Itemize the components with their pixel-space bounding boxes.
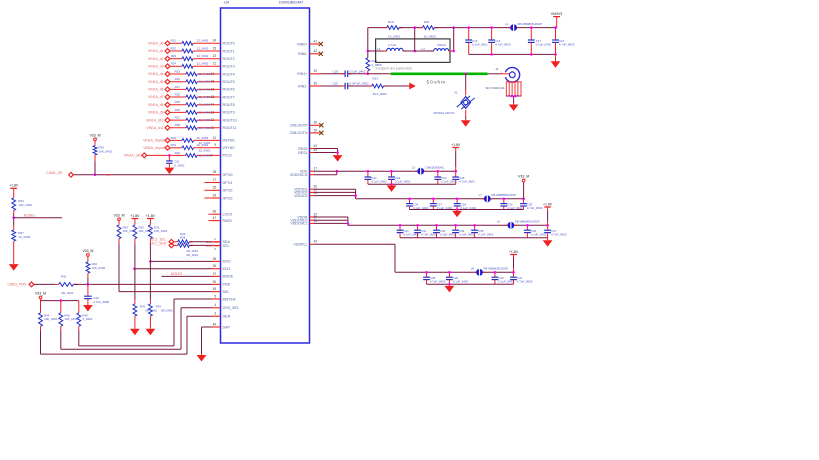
svg-text:35: 35: [213, 257, 217, 261]
svg-text:GPO2: GPO2: [223, 189, 233, 193]
svg-text:V33_M: V33_M: [518, 175, 529, 179]
svg-text:DS90UB914AT: DS90UB914AT: [279, 1, 304, 5]
svg-text:12: 12: [211, 118, 215, 122]
svg-text:37: 37: [213, 272, 217, 276]
svg-text:+1.8V: +1.8V: [543, 202, 553, 206]
svg-text:L8: L8: [471, 267, 475, 271]
svg-text:+1.8V: +1.8V: [9, 184, 19, 188]
svg-text:0.1uF_0402: 0.1uF_0402: [498, 280, 514, 284]
svg-text:VM3V3: VM3V3: [551, 12, 563, 16]
svg-text:22_0402: 22_0402: [199, 153, 211, 157]
svg-text:0.1uF_0402: 0.1uF_0402: [395, 179, 411, 183]
svg-text:5: 5: [214, 294, 216, 298]
svg-text:VIN1A_d1: VIN1A_d1: [148, 49, 164, 53]
svg-text:VIN1A_d7: VIN1A_d7: [148, 95, 164, 99]
svg-text:L4: L4: [421, 47, 425, 51]
svg-text:MODE1: MODE1: [171, 272, 183, 276]
svg-text:RIN0-: RIN0-: [298, 52, 308, 56]
svg-text:PCLK: PCLK: [223, 154, 233, 158]
svg-text:22_0402: 22_0402: [199, 103, 211, 107]
svg-text:30: 30: [213, 280, 217, 284]
svg-text:I2C1_SDA: I2C1_SDA: [150, 242, 166, 246]
svg-text:10K_0402: 10K_0402: [98, 150, 112, 154]
svg-text:IDX1: IDX1: [223, 267, 231, 271]
svg-text:10K_0402: 10K_0402: [18, 203, 32, 207]
svg-text:FB-WB0805U201P: FB-WB0805U201P: [491, 193, 516, 197]
svg-text:49: 49: [213, 322, 217, 326]
svg-text:OSS_SEL: OSS_SEL: [223, 306, 239, 310]
svg-text:VIN1A_d10: VIN1A_d10: [146, 118, 163, 122]
svg-text:27: 27: [213, 178, 217, 182]
svg-text:R24: R24: [171, 62, 177, 66]
svg-text:X_0402: X_0402: [82, 317, 92, 321]
svg-text:CMLOUTP: CMLOUTP: [290, 124, 308, 128]
svg-text:IDX0: IDX0: [223, 260, 231, 264]
svg-text:48: 48: [213, 210, 217, 214]
svg-text:0.1uF_0402: 0.1uF_0402: [350, 70, 366, 74]
svg-text:SCL: SCL: [223, 244, 230, 248]
svg-text:HSYNC: HSYNC: [223, 139, 236, 143]
svg-text:PDB: PDB: [223, 283, 231, 287]
svg-text:45: 45: [213, 287, 217, 291]
svg-text:I2C1_SCL: I2C1_SCL: [206, 244, 220, 248]
svg-text:10K_0402: 10K_0402: [64, 317, 78, 321]
svg-text:16: 16: [211, 87, 215, 91]
svg-text:R31: R31: [171, 143, 177, 147]
svg-text:RIN0+: RIN0+: [297, 42, 307, 46]
svg-text:R23: R23: [373, 77, 379, 81]
svg-text:36: 36: [213, 264, 217, 268]
svg-text:R15: R15: [175, 69, 181, 73]
svg-text:ROUT3: ROUT3: [223, 65, 235, 69]
svg-text:Footprint and partnumber: Footprint and partnumber: [376, 66, 413, 70]
svg-text:R17: R17: [175, 85, 181, 89]
svg-text:R18: R18: [175, 92, 181, 96]
svg-text:CAM1_PDN: CAM1_PDN: [8, 283, 27, 287]
svg-text:SP3021-01ETG: SP3021-01ETG: [433, 111, 455, 115]
svg-text:OEN: OEN: [223, 315, 231, 319]
svg-text:10K_0402: 10K_0402: [44, 317, 58, 321]
svg-text:VDDCML1: VDDCML1: [290, 222, 307, 226]
svg-text:U4: U4: [224, 1, 229, 5]
svg-text:FB-WB0805U201P: FB-WB0805U201P: [484, 267, 509, 271]
svg-text:VIN1A_d11: VIN1A_d11: [146, 126, 163, 130]
svg-text:0.1uF_0402: 0.1uF_0402: [507, 206, 523, 210]
svg-text:BISTEN: BISTEN: [223, 297, 236, 301]
svg-text:ROUT9: ROUT9: [223, 111, 235, 115]
svg-text:23: 23: [213, 46, 217, 50]
svg-text:J1: J1: [495, 67, 499, 71]
svg-text:0R_0402: 0R_0402: [161, 308, 173, 312]
svg-text:0.1uF_0402: 0.1uF_0402: [453, 280, 469, 284]
svg-text:41: 41: [314, 39, 318, 43]
svg-text:+1.8V: +1.8V: [509, 250, 519, 254]
svg-text:ROUT11: ROUT11: [223, 126, 237, 130]
svg-text:RIN1-: RIN1-: [298, 84, 308, 88]
svg-text:DAP: DAP: [223, 325, 231, 329]
svg-text:+1.8V: +1.8V: [130, 214, 140, 218]
svg-text:33: 33: [314, 69, 318, 73]
svg-text:0R_0201: 0R_0201: [186, 253, 198, 257]
svg-text:4.7uF_0603: 4.7uF_0603: [459, 179, 475, 183]
svg-text:+1.8V: +1.8V: [451, 143, 461, 147]
svg-text:49.9_0603: 49.9_0603: [373, 92, 388, 96]
svg-text:VIN1A_hsync0: VIN1A_hsync0: [143, 139, 166, 143]
svg-text:22_0402: 22_0402: [197, 143, 209, 147]
svg-text:4.7uF_0805: 4.7uF_0805: [93, 300, 109, 304]
svg-text:VIN1A_d8: VIN1A_d8: [148, 103, 164, 107]
svg-text:1K_0402: 1K_0402: [424, 35, 436, 39]
svg-text:4.7uF_0603: 4.7uF_0603: [421, 233, 437, 237]
svg-text:R19: R19: [388, 20, 394, 24]
svg-text:10K_0402: 10K_0402: [92, 266, 106, 270]
svg-text:22_0402: 22_0402: [197, 54, 209, 58]
svg-text:L7: L7: [479, 193, 483, 197]
svg-text:R41: R41: [61, 275, 67, 279]
svg-text:R29: R29: [171, 136, 177, 140]
svg-text:0.1uF_0402: 0.1uF_0402: [536, 42, 552, 46]
svg-text:R27: R27: [175, 116, 181, 120]
svg-text:VDDSSCG: VDDSSCG: [290, 173, 308, 177]
svg-text:C18: C18: [333, 70, 339, 74]
svg-text:22_0402: 22_0402: [199, 80, 211, 84]
svg-text:22_0402: 22_0402: [197, 46, 209, 50]
svg-text:L6: L6: [497, 220, 501, 224]
svg-text:24: 24: [213, 193, 217, 197]
svg-text:10K_0402: 10K_0402: [154, 229, 168, 233]
svg-text:VIN1A_d6: VIN1A_d6: [148, 88, 164, 92]
svg-text:42: 42: [314, 49, 318, 53]
svg-text:VDDPLL: VDDPLL: [294, 243, 308, 247]
svg-text:CMLOUTN: CMLOUTN: [290, 131, 308, 135]
svg-text:10K_0402: 10K_0402: [123, 229, 137, 233]
svg-text:RES1: RES1: [298, 151, 307, 155]
svg-text:1K_0402: 1K_0402: [388, 35, 400, 39]
svg-text:BODE1: BODE1: [24, 213, 35, 217]
svg-text:SD-73400-011: SD-73400-011: [485, 86, 505, 90]
svg-text:35: 35: [314, 81, 318, 85]
svg-text:25: 25: [213, 186, 217, 190]
svg-text:43: 43: [314, 240, 318, 244]
svg-text:0.1uF_0402: 0.1uF_0402: [478, 233, 494, 237]
svg-text:CAM1_OE: CAM1_OE: [46, 171, 63, 175]
svg-text:R22: R22: [171, 46, 177, 50]
svg-text:VIN1A_d4: VIN1A_d4: [148, 72, 164, 76]
svg-text:GPO0: GPO0: [223, 173, 233, 177]
svg-text:22_0402: 22_0402: [199, 87, 211, 91]
svg-text:0.1uF_0402: 0.1uF_0402: [371, 179, 387, 183]
svg-text:VSYNC: VSYNC: [223, 146, 236, 150]
svg-text:21: 21: [213, 62, 217, 66]
svg-text:0.1uF_0402: 0.1uF_0402: [472, 42, 488, 46]
svg-text:FB-WB0805U201P: FB-WB0805U201P: [518, 22, 543, 26]
svg-text:C20: C20: [333, 82, 339, 86]
svg-text:V33_M: V33_M: [35, 292, 46, 296]
svg-text:22_0402: 22_0402: [199, 95, 211, 99]
svg-text:L5: L5: [412, 165, 416, 169]
svg-text:50ohm: 50ohm: [427, 79, 447, 85]
svg-text:MODE: MODE: [223, 275, 234, 279]
svg-text:19: 19: [211, 72, 215, 76]
svg-text:9: 9: [214, 143, 216, 147]
svg-text:PASS: PASS: [223, 219, 233, 223]
svg-text:0R_0201: 0R_0201: [61, 291, 74, 295]
svg-text:22_0402: 22_0402: [199, 72, 211, 76]
svg-text:R20: R20: [424, 20, 430, 24]
svg-text:0.1uF_0402: 0.1uF_0402: [461, 206, 477, 210]
svg-text:V33_M: V33_M: [113, 213, 124, 217]
svg-text:L1: L1: [505, 22, 509, 26]
svg-text:ROUT2: ROUT2: [223, 57, 235, 61]
svg-text:0.1uF_0402: 0.1uF_0402: [531, 233, 547, 237]
svg-text:8: 8: [211, 153, 213, 157]
svg-text:34: 34: [314, 219, 318, 223]
svg-text:ROUT10: ROUT10: [223, 118, 237, 122]
svg-text:L3: L3: [377, 47, 381, 51]
svg-text:R23: R23: [171, 54, 177, 58]
svg-text:0.1uF_0402: 0.1uF_0402: [403, 233, 419, 237]
svg-text:ROUT4: ROUT4: [223, 72, 235, 76]
svg-text:VIN1A_d3: VIN1A_d3: [148, 65, 164, 69]
svg-text:0.047uF_0402: 0.047uF_0402: [349, 82, 369, 86]
svg-text:LOCK: LOCK: [223, 213, 233, 217]
svg-text:X_0402: X_0402: [174, 163, 185, 167]
svg-text:11: 11: [211, 126, 215, 130]
svg-text:VIN1A_d0: VIN1A_d0: [148, 42, 164, 46]
svg-text:36: 36: [314, 121, 318, 125]
svg-text:4.7uF_0603: 4.7uF_0603: [527, 206, 543, 210]
svg-text:13: 13: [211, 110, 215, 114]
svg-text:4.7uF_0603: 4.7uF_0603: [551, 233, 567, 237]
svg-text:47: 47: [213, 216, 217, 220]
svg-text:ROUT1: ROUT1: [223, 49, 235, 53]
svg-text:VIN1A_d5: VIN1A_d5: [148, 80, 164, 84]
svg-text:22_0402: 22_0402: [199, 126, 211, 130]
svg-text:ROUT6: ROUT6: [223, 88, 235, 92]
svg-text:0R_0402: 0R_0402: [145, 308, 157, 312]
svg-text:4.7uF_0603: 4.7uF_0603: [559, 42, 575, 46]
svg-text:VIN1A_vsync0: VIN1A_vsync0: [143, 146, 165, 150]
svg-text:R25: R25: [175, 100, 181, 104]
svg-text:ROUT0: ROUT0: [223, 42, 235, 46]
svg-text:18: 18: [211, 80, 215, 84]
svg-text:V1: V1: [454, 91, 458, 95]
svg-text:GPO3: GPO3: [223, 196, 233, 200]
svg-text:R38: R38: [180, 236, 186, 240]
svg-text:22_0402: 22_0402: [197, 39, 209, 43]
svg-text:4.7uF_0603: 4.7uF_0603: [495, 42, 511, 46]
svg-text:RIN1+: RIN1+: [297, 72, 307, 76]
svg-text:4.7uH: 4.7uH: [388, 43, 396, 47]
svg-text:1K_0402: 1K_0402: [18, 235, 30, 239]
svg-text:0.1uF_0402: 0.1uF_0402: [441, 179, 457, 183]
svg-text:VIN1A_clk0: VIN1A_clk0: [124, 154, 142, 158]
svg-text:22_0402: 22_0402: [199, 110, 211, 114]
svg-text:24: 24: [213, 39, 217, 43]
svg-text:4.7uF_0603: 4.7uF_0603: [517, 280, 533, 284]
svg-text:3: 3: [214, 312, 216, 316]
svg-text:10K_0402: 10K_0402: [138, 229, 152, 233]
svg-text:CIM10U800NC: CIM10U800NC: [425, 165, 445, 169]
svg-text:R21: R21: [171, 39, 177, 43]
svg-text:14: 14: [211, 103, 215, 107]
svg-text:ROUT8: ROUT8: [223, 103, 235, 107]
svg-text:V33_M: V33_M: [89, 133, 100, 137]
svg-text:15: 15: [211, 95, 215, 99]
svg-text:100uH: 100uH: [437, 43, 446, 47]
svg-text:R26: R26: [175, 108, 181, 112]
svg-text:22: 22: [213, 54, 217, 58]
svg-text:4: 4: [214, 303, 216, 307]
svg-text:22_0402: 22_0402: [197, 136, 209, 140]
svg-text:0.1uF_0402: 0.1uF_0402: [440, 233, 456, 237]
svg-text:10: 10: [213, 136, 217, 140]
svg-text:ROUT7: ROUT7: [223, 95, 235, 99]
svg-text:45: 45: [314, 191, 318, 195]
svg-text:FB-WB0805U201P: FB-WB0805U201P: [515, 220, 540, 224]
svg-text:+1.8V: +1.8V: [146, 214, 156, 218]
svg-text:0.1uF_0402: 0.1uF_0402: [437, 206, 453, 210]
svg-text:VIN1A_d9: VIN1A_d9: [148, 111, 164, 115]
svg-text:28: 28: [213, 170, 217, 174]
svg-text:0.1uF_0402: 0.1uF_0402: [413, 206, 429, 210]
svg-text:0.1uF_0402: 0.1uF_0402: [459, 233, 475, 237]
svg-text:R32: R32: [175, 151, 181, 155]
svg-text:R28: R28: [175, 123, 181, 127]
svg-text:V33_M: V33_M: [82, 249, 93, 253]
svg-text:VDDIO3: VDDIO3: [294, 194, 307, 198]
svg-text:39: 39: [314, 128, 318, 132]
svg-text:4.7uF_0603: 4.7uF_0603: [430, 280, 446, 284]
svg-text:22_0402: 22_0402: [197, 62, 209, 66]
svg-text:R16: R16: [175, 77, 181, 81]
svg-text:GPO1: GPO1: [223, 181, 233, 185]
svg-text:22_0402: 22_0402: [199, 118, 211, 122]
svg-text:22_0402: 22_0402: [199, 148, 211, 152]
svg-text:SEL: SEL: [223, 290, 230, 294]
svg-text:ROUT5: ROUT5: [223, 80, 235, 84]
svg-text:VIN1A_d2: VIN1A_d2: [148, 57, 164, 61]
